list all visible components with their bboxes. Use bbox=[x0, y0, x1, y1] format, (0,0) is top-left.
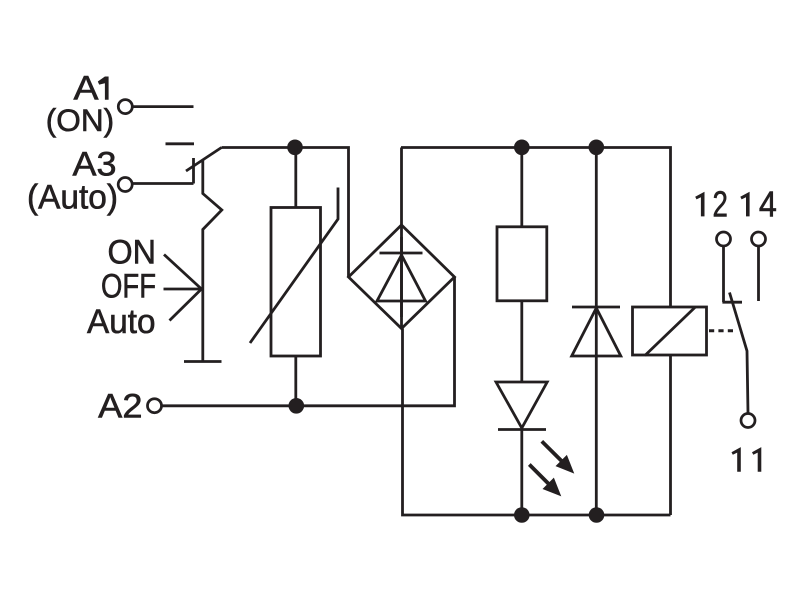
svg-text:2: 2 bbox=[713, 183, 728, 224]
bridge BR1 inner diode triangle bbox=[377, 255, 426, 301]
wire A1 stub bbox=[132, 105, 193, 108]
contact 12 fixed bar bbox=[722, 301, 742, 304]
contact terminal 14 circle bbox=[752, 232, 766, 246]
wire top rail DC (bridge to relay coil) bbox=[401, 148, 671, 308]
wire A3 to switch post bbox=[132, 182, 193, 185]
svg-text:Auto: Auto bbox=[87, 303, 156, 341]
LED D1 triangle bbox=[496, 382, 547, 428]
node diode bottom junction bbox=[589, 507, 605, 523]
node resistor top junction bbox=[514, 140, 530, 156]
wire contact 14 lead bbox=[757, 246, 760, 301]
LED D1 bottom lead bbox=[520, 430, 523, 516]
node diode top junction bbox=[589, 140, 605, 156]
bridge BR1 inner diode cathode bar bbox=[380, 252, 423, 255]
switch mechanical link bbox=[203, 161, 222, 362]
selector Auto pointer line bbox=[170, 289, 202, 321]
svg-text:A2: A2 bbox=[98, 387, 142, 425]
freewheel diode D2 triangle bbox=[572, 308, 621, 356]
contact terminal 14 label bbox=[740, 192, 749, 217]
resistor R1 body bbox=[497, 227, 547, 301]
LED D1 light arrow 1 bbox=[542, 441, 562, 461]
varistor RV1 body bbox=[271, 208, 321, 357]
wire contact 12 lead bbox=[722, 246, 725, 302]
svg-text:4: 4 bbox=[759, 183, 777, 224]
switch fixed contact bar (ON position) bbox=[166, 142, 195, 145]
varistor RV1 diagonal stroke bbox=[250, 188, 338, 344]
switch link end stop bar bbox=[184, 360, 222, 363]
node varistor top junction bbox=[287, 140, 303, 156]
switch A3 contact post bbox=[192, 158, 195, 184]
relay mechanical link dotted line bbox=[709, 329, 733, 332]
LED D1 light arrow 2 bbox=[529, 465, 549, 485]
switch lever S1 bbox=[186, 148, 222, 172]
contact terminal 11 label bbox=[732, 447, 741, 472]
terminal A1 circle bbox=[118, 100, 132, 114]
svg-text:ON: ON bbox=[108, 234, 157, 272]
terminal A3 circle bbox=[118, 178, 132, 192]
contact terminal 12 label bbox=[695, 192, 704, 217]
resistor R1 bottom lead bbox=[520, 301, 523, 382]
resistor R1 top lead bbox=[520, 148, 523, 227]
svg-text:(Auto): (Auto) bbox=[27, 178, 118, 216]
svg-text:(ON): (ON) bbox=[46, 102, 114, 138]
varistor RV1 bottom lead bbox=[294, 356, 297, 406]
wire bottom rail DC- bbox=[403, 329, 671, 516]
relay coil K1 body bbox=[633, 307, 707, 355]
wire bridge DC+ to top rail bbox=[400, 148, 403, 329]
wire A2 to bridge right vertex bbox=[162, 277, 455, 406]
terminal A2 circle bbox=[148, 399, 162, 413]
varistor RV1 top lead bbox=[294, 148, 297, 208]
node A2 varistor junction bbox=[289, 398, 305, 414]
svg-text:OFF: OFF bbox=[101, 268, 156, 306]
contact terminal 12 circle bbox=[717, 232, 731, 246]
freewheel diode D2 wire bbox=[595, 148, 598, 516]
bridge rectifier BR1 diamond bbox=[349, 225, 455, 329]
relay coil K1 diagonal bbox=[645, 307, 696, 356]
node LED bottom junction bbox=[514, 507, 530, 523]
selector ON pointer line bbox=[164, 255, 202, 290]
wire top rail AC (switch to bridge left) bbox=[222, 148, 349, 278]
wire relay coil bottom lead bbox=[669, 355, 672, 515]
contact terminal 11 circle bbox=[741, 414, 755, 428]
relay contact lever bbox=[730, 293, 749, 414]
bridge BR1 inner diode vertical line bbox=[400, 237, 403, 317]
LED D1 cathode bar bbox=[498, 428, 546, 431]
selector OFF pointer line bbox=[164, 288, 202, 291]
freewheel diode D2 cathode bar bbox=[572, 306, 620, 309]
